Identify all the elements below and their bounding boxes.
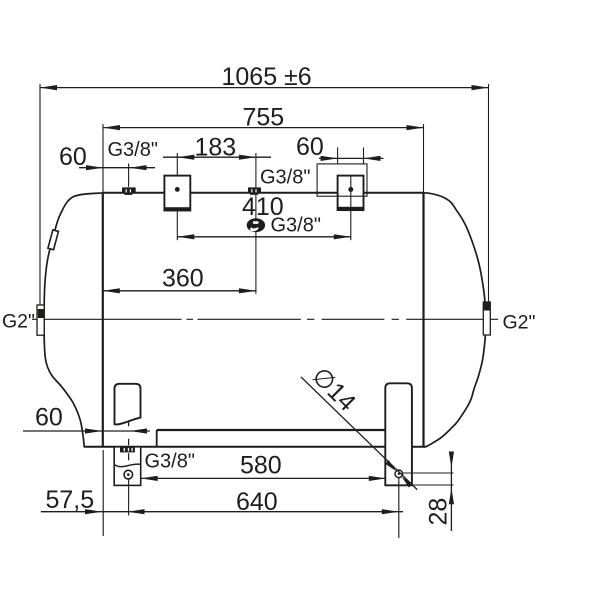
bottom rail top edge xyxy=(157,429,386,431)
right leg xyxy=(385,383,412,485)
svg-text:57,5: 57,5 xyxy=(46,486,95,514)
svg-text:580: 580 xyxy=(240,451,282,479)
dimension 28 xyxy=(403,472,454,474)
dashed center line bottom fitting xyxy=(128,421,130,460)
left weld seam xyxy=(102,193,104,447)
tank top line xyxy=(103,192,424,194)
svg-text:640: 640 xyxy=(236,488,278,516)
right leg hole xyxy=(395,470,403,478)
dimension 183 line xyxy=(163,156,271,158)
top G3/8 fitting 2 xyxy=(248,187,261,194)
extension line left seam top x=103 xyxy=(102,124,104,192)
oval G3/8 port xyxy=(247,218,265,232)
right G2 fitting xyxy=(483,302,490,335)
left head xyxy=(44,193,103,447)
extension line oval center x=255.9 xyxy=(255,153,257,294)
svg-text:G2": G2" xyxy=(2,311,35,333)
svg-text:360: 360 xyxy=(162,265,204,293)
svg-text:60: 60 xyxy=(35,403,63,431)
extension line boss width right x=363.5 xyxy=(363,147,365,164)
dimension 60 top-left line xyxy=(79,167,155,169)
extension line left end x=40 xyxy=(39,84,41,305)
right weld seam xyxy=(422,193,424,447)
top G3/8 fitting 1 xyxy=(122,187,136,195)
lifting tab on left head xyxy=(48,230,59,250)
extension line right hole x=398.8 xyxy=(398,478,400,538)
dimension 60 bottom-left line xyxy=(23,430,150,432)
left foot hole xyxy=(124,470,133,479)
dimension 60 top-right line xyxy=(319,157,384,159)
svg-text:755: 755 xyxy=(243,103,285,131)
left foot curve xyxy=(114,464,141,467)
left G2 fitting xyxy=(37,305,44,335)
extension line right seam top x=423.5 xyxy=(423,124,425,192)
extension line boss width left x=337.6 xyxy=(337,147,339,164)
bottom G3/8 fitting xyxy=(120,446,135,452)
left boss xyxy=(164,176,190,211)
left leg upper part xyxy=(115,384,141,425)
dimension 580 line xyxy=(141,477,386,479)
extension line left boss center x=177.3 xyxy=(176,153,178,240)
svg-text:183: 183 xyxy=(195,134,237,162)
right head xyxy=(424,193,486,447)
bottom rail step xyxy=(156,430,158,447)
svg-text:G2": G2" xyxy=(503,312,536,334)
dimension 360 line xyxy=(103,290,256,292)
right boss outer xyxy=(317,164,367,196)
svg-text:60: 60 xyxy=(59,143,87,171)
extension line right boss center x=350.8 xyxy=(350,176,352,241)
right boss inner xyxy=(338,176,364,211)
svg-text:G3/8": G3/8" xyxy=(260,166,310,188)
svg-text:G3/8": G3/8" xyxy=(145,450,195,472)
tank bottom line xyxy=(84,446,427,448)
svg-text:1065 ±6: 1065 ±6 xyxy=(222,63,312,91)
svg-text:60: 60 xyxy=(296,133,324,161)
svg-text:G3/8": G3/8" xyxy=(271,214,321,236)
dimension 57,5 and 640 shared line xyxy=(41,511,403,513)
left foot box xyxy=(114,447,141,486)
extension line fitting1 x=128.6 xyxy=(128,164,130,187)
svg-text:G3/8": G3/8" xyxy=(108,139,158,161)
dimension 755 line xyxy=(103,127,424,129)
svg-text:28: 28 xyxy=(425,498,453,526)
centerline xyxy=(32,318,498,320)
extension line left hole x=128.6 xyxy=(128,479,130,516)
dimension 410 line xyxy=(177,236,350,238)
dimension 1065 line xyxy=(40,87,489,89)
extension line right end x=488.5 xyxy=(488,84,490,302)
extension line below seam x=103.2 xyxy=(102,450,104,536)
diameter 14 leader xyxy=(301,377,417,490)
